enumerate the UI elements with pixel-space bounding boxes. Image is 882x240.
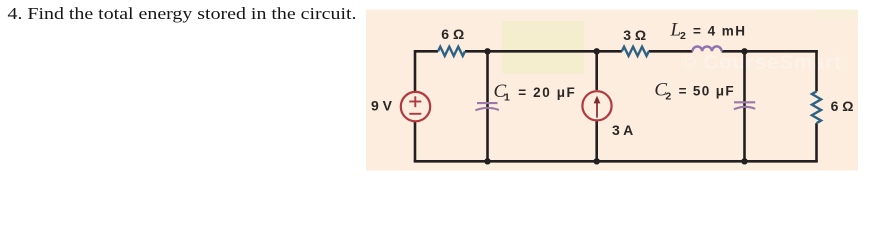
circuit panel background bbox=[366, 10, 858, 171]
capacitor C2 plates bbox=[734, 102, 755, 109]
svg-text:4. Find the total energy store: 4. Find the total energy stored in the c… bbox=[8, 4, 357, 23]
wire right upper bbox=[815, 50, 818, 91]
inductor L2 coil bbox=[693, 46, 722, 51]
current source I1 circle bbox=[582, 91, 611, 120]
wire top middle segment bbox=[465, 50, 622, 53]
resistor R2 3ohm zigzag bbox=[622, 47, 649, 56]
junction dot bottom current source bbox=[594, 158, 600, 164]
wire C2 branch bbox=[743, 51, 746, 161]
resistor R1 6ohm zigzag bbox=[438, 47, 465, 56]
wire right lower bbox=[815, 123, 818, 161]
wire left lower bbox=[414, 121, 417, 162]
wire left upper bbox=[414, 50, 417, 91]
junction dot bottom C1 bbox=[484, 158, 490, 164]
wire current source upper bbox=[595, 51, 598, 90]
voltage source plus sign bbox=[409, 96, 421, 107]
svg-text:3 Ω: 3 Ω bbox=[623, 27, 646, 43]
svg-text:3 A: 3 A bbox=[612, 122, 633, 138]
junction dot top C2 bbox=[741, 48, 747, 54]
svg-text:6 Ω: 6 Ω bbox=[441, 26, 464, 42]
highlight patch center bbox=[502, 21, 584, 74]
voltage source minus sign bbox=[409, 113, 421, 115]
wire top left segment bbox=[415, 50, 438, 53]
svg-text:6 Ω: 6 Ω bbox=[831, 98, 854, 114]
highlight patch top-right bbox=[816, 10, 858, 18]
capacitor C1 plates bbox=[475, 103, 499, 110]
junction dot top C1 bbox=[484, 48, 490, 54]
wire top right segment bbox=[722, 50, 818, 53]
wire bottom bbox=[414, 160, 818, 163]
wire C1 branch bbox=[486, 51, 489, 161]
svg-text:9 V: 9 V bbox=[371, 98, 393, 114]
resistor R3 6ohm vertical zigzag bbox=[812, 91, 821, 123]
current source arrow bbox=[594, 96, 601, 118]
voltage source V1 circle bbox=[401, 92, 430, 121]
wire current source lower bbox=[595, 120, 598, 161]
junction dot bottom C2 bbox=[741, 158, 747, 164]
junction dot top current source bbox=[594, 48, 600, 54]
wire top between 3ohm and inductor bbox=[649, 50, 693, 53]
